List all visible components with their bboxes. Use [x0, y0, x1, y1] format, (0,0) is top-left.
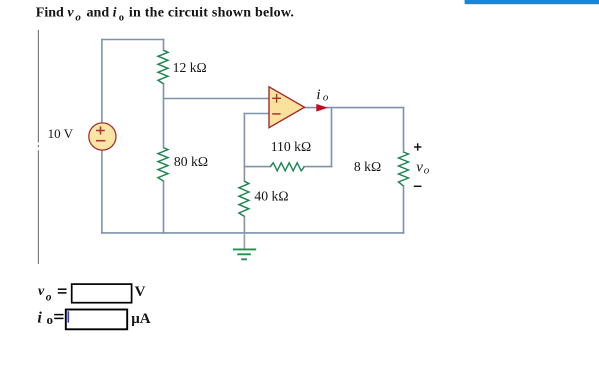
wire: left vertical below source	[101, 150, 103, 233]
resistor R1 12 kOhm zigzag	[158, 50, 168, 83]
svg-text:i: i	[316, 87, 320, 103]
svg-text:12 kΩ: 12 kΩ	[173, 60, 207, 75]
wire: right vertical below 8k	[403, 186, 405, 233]
label plus mark (vo polarity)	[414, 143, 421, 150]
wire: between 12k and 80k	[163, 84, 165, 148]
wire: top rail	[102, 39, 164, 41]
ground stub	[243, 233, 245, 249]
resistor R4 40 kOhm zigzag	[239, 181, 249, 216]
ground bars	[233, 249, 256, 259]
wire: 110k right lead	[304, 166, 332, 168]
text caret	[67, 311, 69, 322]
voltage source V1 plus sign	[96, 126, 105, 134]
svg-text:80 kΩ: 80 kΩ	[174, 154, 208, 169]
blue progress bar top right	[465, 0, 599, 4]
svg-text:v: v	[38, 284, 45, 299]
label minus mark (vo polarity)	[414, 185, 422, 187]
wire: to op-amp - input	[244, 113, 269, 115]
current arrow i_o	[316, 104, 328, 112]
resistor R2 80 kOhm zigzag	[158, 148, 168, 182]
svg-text:10 V: 10 V	[48, 126, 74, 141]
wire: 12k branch above resistor	[163, 40, 165, 51]
wire: 110k left lead	[244, 166, 270, 168]
left margin rule (gray)	[37, 30, 39, 264]
wire: feedback right riser	[331, 108, 333, 167]
svg-text:8 kΩ: 8 kΩ	[354, 159, 381, 174]
svg-text:110 kΩ: 110 kΩ	[271, 139, 311, 154]
wire: feedback node down to 40k	[243, 167, 245, 182]
op-amp U1 inverting input minus sign	[272, 113, 280, 115]
answer box vo	[72, 284, 132, 303]
svg-text:o: o	[323, 92, 329, 104]
svg-text:o: o	[46, 291, 52, 303]
wire: bottom rail	[102, 232, 404, 234]
circuit wires	[102, 40, 404, 234]
svg-text:v: v	[416, 159, 423, 175]
voltage source V1 minus sign	[96, 140, 105, 142]
op-amp U1 noninverting input plus sign	[272, 94, 281, 103]
wire: left vertical above source	[101, 40, 103, 123]
answer box io	[66, 310, 127, 330]
svg-text:o: o	[424, 165, 430, 177]
svg-text:μA: μA	[131, 311, 151, 327]
wire: feedback left vertical	[243, 114, 245, 167]
svg-text:o: o	[47, 312, 54, 327]
svg-text:i: i	[37, 309, 42, 326]
resistor R5 8 kOhm zigzag	[399, 152, 409, 186]
svg-text:V: V	[135, 284, 146, 300]
wire: op-amp output	[305, 107, 404, 109]
wire: below 80k to bottom rail	[163, 181, 165, 233]
svg-text:Find vo and io in the circuit: Find vo and io in the circuit shown belo…	[36, 6, 294, 24]
op-amp U1 triangle	[269, 87, 305, 128]
wire: right vertical above 8k	[403, 108, 405, 152]
svg-text:40 kΩ: 40 kΩ	[254, 189, 288, 204]
resistor R3 110 kOhm zigzag (horizontal)	[270, 163, 304, 171]
wire: to op-amp + input	[164, 98, 270, 100]
voltage source V1 10V	[89, 123, 116, 150]
wire: below 40k to bottom rail	[243, 216, 245, 233]
